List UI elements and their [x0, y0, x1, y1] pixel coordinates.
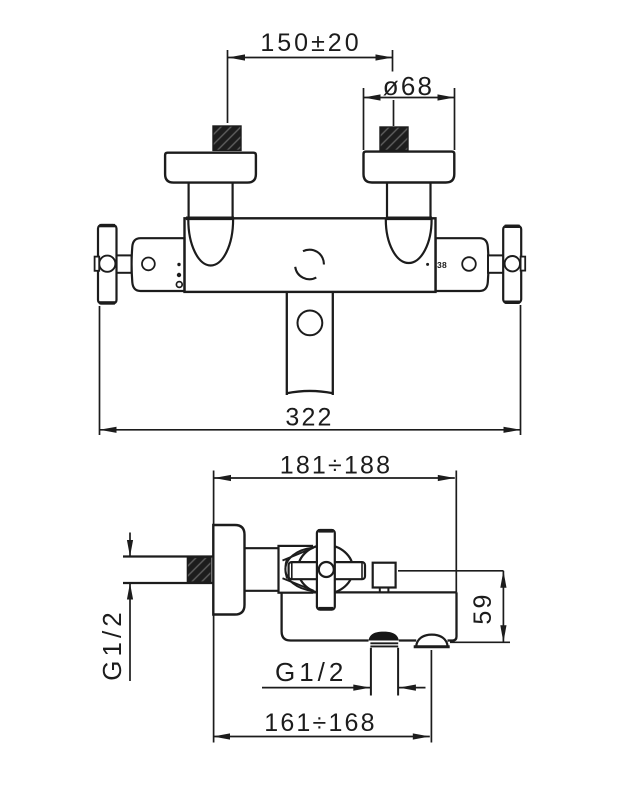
extension line left (ø68)	[363, 88, 365, 150]
svg-text:181÷188: 181÷188	[280, 452, 393, 480]
pipe G1/2 dim arrow upper	[129, 533, 131, 557]
right neck	[386, 183, 388, 218]
dimension 181÷188 line	[214, 477, 455, 479]
right hub circle	[462, 257, 476, 271]
arrow right of 150	[376, 54, 393, 60]
thick junction right	[386, 217, 432, 221]
shower outlet square	[373, 563, 396, 588]
escutcheon side view	[213, 525, 244, 615]
left handle bar	[98, 225, 117, 304]
right hub dot	[426, 263, 429, 266]
hose outlet thread lines	[370, 642, 398, 644]
left handle bar caps	[100, 224, 116, 227]
bonnet inner arc	[285, 559, 287, 579]
aerator dome	[416, 635, 447, 647]
svg-text:322: 322	[285, 404, 333, 432]
right inlet dome	[386, 220, 432, 264]
right handle stem	[488, 255, 513, 272]
left neck	[188, 183, 190, 218]
svg-text:150±20: 150±20	[260, 29, 361, 57]
arrow right of ø68	[438, 94, 455, 100]
right handle end cap	[521, 257, 526, 271]
handle skirt cone arc	[285, 548, 312, 591]
hose outlet dome (threaded)	[369, 632, 399, 641]
dimension ø68 line	[364, 97, 455, 99]
thick junction left	[186, 217, 234, 221]
extension line (161 right)	[430, 650, 432, 743]
svg-text:161÷168: 161÷168	[264, 709, 377, 737]
handle skirt cone chords	[283, 548, 314, 591]
temperature dial broken circle lower arc	[295, 267, 316, 279]
cross handle center circle	[319, 562, 334, 577]
pipe G1/2 dim arrow lower and leader	[129, 584, 131, 682]
neck side view	[245, 547, 280, 549]
left handle hub circle	[99, 256, 115, 272]
cross handle vertical arm	[317, 530, 335, 610]
spout	[287, 293, 333, 396]
dimension 59 line	[502, 571, 504, 643]
extension line right (181)	[455, 471, 457, 593]
left escutcheon flange	[165, 153, 256, 183]
dimension 150±20 line	[228, 57, 393, 59]
body side view outline	[282, 592, 457, 640]
dimension 161÷168 line	[213, 736, 430, 738]
dimension 59 bottom extension	[450, 641, 510, 643]
arrow left of 322	[100, 427, 117, 433]
extension line right (150) upper	[392, 50, 394, 72]
extension line right (150) lower	[393, 100, 395, 126]
left hub ring	[176, 282, 182, 288]
G1/2 leader left	[262, 687, 370, 689]
left handle end cap	[95, 257, 100, 271]
handle skirt ellipse	[298, 545, 353, 594]
right handle hub circle	[505, 256, 520, 271]
svg-text:G1/2: G1/2	[275, 657, 347, 687]
right wall pipe section (hatched)	[380, 127, 408, 150]
left hub circle	[142, 258, 155, 271]
right handle bar caps	[505, 225, 520, 228]
right hub	[436, 238, 489, 291]
shower outlet stem	[379, 588, 381, 593]
arrow right of 322	[504, 427, 521, 433]
temperature dial broken circle upper arc	[303, 250, 324, 265]
hose outlet tube	[370, 648, 372, 696]
cross handle horizontal arm	[289, 562, 365, 579]
extension line left (150)	[227, 50, 229, 123]
left handle stem	[107, 255, 132, 272]
main body	[185, 218, 436, 292]
svg-text:59: 59	[469, 592, 497, 624]
extension line right (322)	[520, 305, 522, 435]
left hub dot 1	[177, 263, 180, 266]
left inlet dome	[188, 220, 233, 266]
left wall pipe section (hatched)	[213, 126, 241, 150]
G1/2 leader right	[399, 687, 426, 689]
right handle bar	[503, 226, 521, 303]
arrow left of 150	[228, 54, 245, 60]
dimension 322 line	[100, 429, 521, 431]
dimension 59 top extension	[398, 570, 504, 572]
arrow left of 181	[214, 475, 231, 481]
arrow right of 188	[438, 475, 455, 481]
extension line left (322)	[99, 306, 101, 435]
arrow left of ø68	[364, 94, 381, 100]
svg-text:ø68: ø68	[383, 71, 434, 101]
wall pipe side view	[123, 555, 213, 557]
left hub	[132, 238, 185, 291]
left hub dot 2	[177, 273, 181, 277]
extension line left shared (181/161)	[213, 471, 215, 743]
svg-text:G1/2: G1/2	[97, 608, 127, 680]
right escutcheon flange	[364, 152, 455, 183]
extension line right (ø68)	[454, 88, 456, 150]
wall section hatched block	[187, 558, 211, 583]
aerator base line	[414, 645, 450, 648]
svg-text:38: 38	[437, 260, 447, 270]
valve box	[279, 546, 313, 593]
spout circle	[298, 311, 323, 336]
